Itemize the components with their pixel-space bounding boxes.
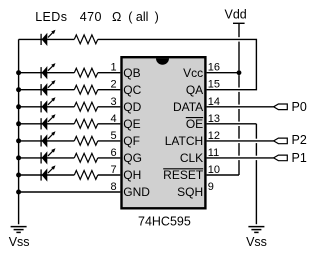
- svg-text:RESET: RESET: [163, 168, 204, 182]
- svg-text:QG: QG: [123, 151, 142, 165]
- svg-text:P1: P1: [292, 151, 307, 165]
- svg-text:LATCH: LATCH: [165, 134, 203, 148]
- svg-text:9: 9: [208, 181, 214, 193]
- svg-text:QC: QC: [123, 83, 141, 97]
- svg-text:QF: QF: [123, 134, 140, 148]
- svg-text:6: 6: [110, 147, 116, 159]
- svg-text:Vss: Vss: [246, 235, 267, 249]
- svg-text:470: 470: [80, 10, 102, 24]
- svg-text:DATA: DATA: [173, 100, 203, 114]
- svg-text:12: 12: [208, 130, 220, 142]
- svg-text:13: 13: [208, 113, 220, 125]
- svg-text:QE: QE: [123, 117, 140, 131]
- svg-text:Vdd: Vdd: [225, 8, 247, 22]
- svg-text:LEDs: LEDs: [35, 10, 67, 24]
- svg-text:8: 8: [110, 181, 116, 193]
- svg-text:1: 1: [110, 62, 116, 74]
- svg-text:CLK: CLK: [180, 151, 203, 165]
- svg-text:P2: P2: [292, 133, 307, 147]
- svg-text:5: 5: [110, 130, 116, 142]
- svg-text:GND: GND: [123, 185, 150, 199]
- svg-text:QH: QH: [123, 168, 141, 182]
- svg-text:2: 2: [110, 79, 116, 91]
- svg-text:15: 15: [208, 79, 220, 91]
- svg-text:10: 10: [208, 164, 220, 176]
- svg-text:Vcc: Vcc: [183, 66, 203, 80]
- svg-text:11: 11: [208, 147, 219, 159]
- svg-text:P0: P0: [292, 100, 307, 114]
- svg-text:14: 14: [208, 96, 220, 108]
- svg-text:( all: ( all: [128, 10, 148, 24]
- svg-text:74HC595: 74HC595: [138, 214, 191, 228]
- svg-text:7: 7: [110, 164, 116, 176]
- svg-text:16: 16: [208, 62, 220, 74]
- svg-text:QA: QA: [186, 83, 203, 97]
- svg-text:4: 4: [110, 113, 116, 125]
- svg-text:QD: QD: [123, 100, 141, 114]
- svg-text:QB: QB: [123, 66, 140, 80]
- svg-text:Vss: Vss: [9, 235, 30, 249]
- svg-text:Ω: Ω: [112, 10, 121, 24]
- svg-text:SQH: SQH: [177, 185, 203, 199]
- svg-text:3: 3: [110, 96, 116, 108]
- svg-text:OE: OE: [186, 117, 203, 131]
- svg-text:): ): [155, 10, 159, 24]
